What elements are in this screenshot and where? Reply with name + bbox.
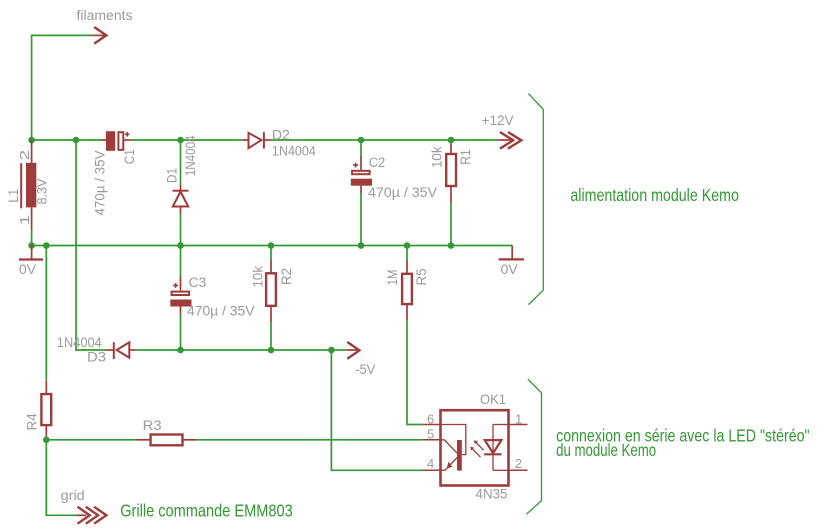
svg-text:L1: L1 <box>6 189 21 203</box>
svg-text:4N35: 4N35 <box>476 487 508 502</box>
resistor R2 (vertical) <box>266 246 276 351</box>
svg-text:R1: R1 <box>458 149 473 165</box>
junction at (180.5,245.5) <box>177 242 184 249</box>
wire net FILAMENTS from node at (31.6,140) up and right <box>32 35 92 140</box>
svg-text:8.3V: 8.3V <box>34 179 49 205</box>
svg-text:OK1: OK1 <box>480 392 506 407</box>
resistor R4 (vertical) <box>41 246 51 440</box>
svg-text:grid: grid <box>61 488 85 503</box>
svg-text:6: 6 <box>427 411 434 426</box>
pin 6 stub <box>422 424 440 426</box>
svg-text:0V: 0V <box>19 262 36 277</box>
base connection from pin 6 <box>441 425 466 455</box>
phototransistor base plate <box>457 440 462 471</box>
inductor L1 (transformer winding) <box>21 140 36 246</box>
junction at (46.3,439.8) <box>43 437 50 444</box>
svg-text:10k: 10k <box>251 266 266 288</box>
wire from C1 to D2 <box>131 139 242 141</box>
wire -5V row from D3 to arrow <box>136 349 346 351</box>
svg-text:Grille commande EMM803: Grille commande EMM803 <box>120 501 293 521</box>
svg-text:1N4004: 1N4004 <box>57 335 102 350</box>
wire vertical x=76 from top rail to -5V row <box>76 140 106 350</box>
junction at (271,350) R2 bottom <box>268 347 275 354</box>
svg-text:4: 4 <box>427 456 434 471</box>
svg-text:10k: 10k <box>429 146 444 168</box>
ground symbol 0V left <box>19 246 43 260</box>
junction at (451,245.5) <box>448 242 455 249</box>
junction at (180.5,350) C3 bottom <box>177 347 184 354</box>
svg-text:470µ / 35V: 470µ / 35V <box>368 185 437 200</box>
svg-text:1: 1 <box>515 411 522 426</box>
junction at (46.3,245.5) <box>43 242 50 249</box>
svg-text:1N4004: 1N4004 <box>183 135 198 176</box>
resistor R5 (vertical, 1M) <box>402 246 412 321</box>
svg-text:5: 5 <box>427 426 434 441</box>
pin 1 inner lead <box>493 424 509 426</box>
svg-text:0V: 0V <box>501 262 518 277</box>
svg-text:-5V: -5V <box>355 362 375 377</box>
wire ground rail 0V, y=245.5 <box>32 245 513 247</box>
svg-text:R3: R3 <box>143 418 162 433</box>
svg-text:R2: R2 <box>279 268 294 285</box>
optocoupler OK1 4N35 <box>422 410 527 485</box>
svg-text:470µ / 35V: 470µ / 35V <box>92 151 107 216</box>
collector from pin 5 <box>441 440 458 453</box>
junction at (76,140) <box>73 137 80 144</box>
junction at (361,140) C2 top <box>358 137 365 144</box>
OK1 body box <box>441 410 509 485</box>
svg-text:1M: 1M <box>385 270 400 286</box>
arrow pin -5V (single chevron) <box>346 342 359 359</box>
wire R3 row to OK1 pin 5 <box>46 439 136 441</box>
junction at (451,140) R1 top <box>448 137 455 144</box>
junction at (271,245.5) <box>268 242 275 249</box>
junction at (31.6,140) <box>28 137 35 144</box>
svg-text:filaments: filaments <box>77 8 133 23</box>
svg-text:alimentation module Kemo: alimentation module Kemo <box>570 185 739 205</box>
LED vertical lead <box>492 425 494 471</box>
svg-text:R4: R4 <box>25 413 40 430</box>
pin 4 stub <box>422 469 440 471</box>
emitter to pin 4 <box>441 458 458 471</box>
svg-text:C3: C3 <box>189 275 207 290</box>
arrow pin GRID (triple chevron) <box>76 507 106 524</box>
junction at (180.5,140) node D1/C1 <box>177 137 184 144</box>
pin 1 stub <box>509 424 528 426</box>
LED cathode bar <box>484 453 501 455</box>
svg-text:2: 2 <box>17 150 32 161</box>
resistor R3 (horizontal) <box>136 435 196 446</box>
diode D2 (horizontal, cathode right) <box>242 132 271 148</box>
svg-text:du module Kemo: du module Kemo <box>556 440 656 460</box>
diode D1 (vertical, cathode up) <box>173 140 189 246</box>
wire grid net from R3 node down and right <box>46 440 76 516</box>
svg-text:2: 2 <box>515 456 522 471</box>
emitter arrow <box>447 462 453 469</box>
svg-text:1N4004: 1N4004 <box>272 144 316 159</box>
wire from -5V row down to OK1 pin 4 <box>331 350 422 470</box>
pin 5 stub <box>422 439 440 441</box>
wire top rail +12V net, y=140 <box>32 139 101 141</box>
svg-text:D2: D2 <box>272 128 290 143</box>
junction at (331.4,350) <box>328 347 335 354</box>
ground symbol 0V right <box>499 246 524 260</box>
svg-text:D3: D3 <box>87 350 106 365</box>
svg-text:470µ / 35V: 470µ / 35V <box>187 303 255 318</box>
LED triangle <box>485 440 502 453</box>
junction at (31.6,245.5) <box>28 242 35 249</box>
arrow +12V (double chevron) <box>497 132 521 149</box>
capacitor C2 (vertical polarized) <box>351 140 372 246</box>
svg-text:C2: C2 <box>369 155 386 170</box>
resistor R1 (vertical) <box>446 140 456 246</box>
light arrow a <box>475 441 484 450</box>
capacitor C1 (horizontal polarized) <box>101 131 131 151</box>
pin 2 stub <box>509 469 528 471</box>
arrow pin FILAMENTS (single chevron) <box>92 27 106 44</box>
junction at (361,245.5) <box>358 242 365 249</box>
light arrow b <box>472 448 481 457</box>
diode D3 (horizontal, cathode left) <box>106 342 136 359</box>
junction at (407,245.5) <box>404 242 411 249</box>
svg-text:C1: C1 <box>122 149 137 164</box>
svg-text:D1: D1 <box>165 168 180 183</box>
svg-text:+12V: +12V <box>482 113 514 128</box>
brace for connexion note <box>526 379 541 514</box>
capacitor C3 (vertical polarized) <box>170 246 191 351</box>
wire from R5 to OK1 pin 6 <box>407 321 422 425</box>
brace for alimentation note <box>528 94 543 305</box>
svg-text:R5: R5 <box>414 269 429 286</box>
pin 2 inner lead <box>493 469 509 471</box>
wire from D2 to +12V arrow <box>271 139 498 141</box>
wire from R3 to pin 5 <box>196 439 422 441</box>
svg-text:1: 1 <box>17 215 32 226</box>
